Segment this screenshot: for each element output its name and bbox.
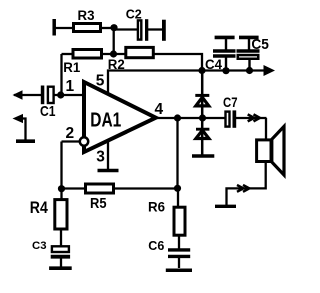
wire to speaker [265,118,267,139]
pin 4 wire [155,101,226,118]
svg-text:2: 2 [66,125,75,142]
node C5/supply junction [246,67,253,74]
resistor R4 [30,189,67,246]
ground input arrow [13,114,36,141]
svg-text:R4: R4 [30,198,48,217]
svg-text:C5: C5 [251,36,269,53]
svg-text:3: 3 [96,149,105,166]
node output junction diodes [199,114,206,121]
capacitor C4 [205,37,236,72]
capacitor C2 [114,7,162,41]
resistor R6 [148,188,185,249]
svg-text:C6: C6 [148,238,164,253]
feedback wire from pin4 node down [176,118,178,188]
speaker bottom wire [227,163,266,205]
svg-text:R6: R6 [148,199,165,215]
svg-text:C2: C2 [126,7,142,22]
terminal T-bar right of C2 [162,20,166,41]
wire R2 to supply node [153,54,202,71]
svg-text:C4: C4 [205,56,222,72]
svg-text:R1: R1 [63,59,80,75]
svg-text:C7: C7 [223,95,238,110]
wire junction column [113,28,115,54]
node junction R1/R2 [110,50,117,57]
resistor R2 [108,47,154,72]
node pin2/R4/R5 [58,185,65,192]
capacitor C5 [237,36,269,71]
pin 3 wire + ground [96,141,118,171]
svg-text:C3: C3 [32,240,47,252]
pin 2 vertical wire [60,142,62,189]
capacitor C6 [148,238,190,268]
resistor R1 [62,50,126,96]
svg-text:4: 4 [155,101,164,118]
svg-text:DA1: DA1 [90,109,121,131]
ground C3 [49,266,72,270]
input arrow [13,90,42,99]
terminal T-bar left of R3 [54,19,73,36]
diode VD2 [192,118,214,156]
speaker BA1 [257,126,284,175]
node pin1 junction [54,91,84,98]
supply line with arrow [202,65,275,76]
capacitor C3 [32,240,70,267]
svg-text:C1: C1 [40,103,56,120]
svg-text:1: 1 [66,78,75,95]
pin 2 wire [62,125,81,142]
inversion bubble pin 2 [80,137,88,145]
pin 5 wire [96,71,202,95]
supply node junction [198,67,205,74]
ground C6 [166,268,192,272]
capacitor C7 [223,95,267,128]
node feedback/R5/R6 [174,185,181,192]
node junction R3 right [110,24,117,31]
node C4/supply junction [222,67,229,74]
svg-text:R3: R3 [78,8,95,23]
connector chevrons output [248,114,260,121]
op-amp DA1 [84,82,156,152]
capacitor C1 [40,86,56,121]
ground speaker [215,205,236,208]
resistor R5 [62,184,178,212]
svg-text:5: 5 [96,73,105,90]
diode VD1 [195,71,209,119]
svg-text:R5: R5 [90,195,107,212]
resistor R3 [74,8,115,32]
node output junction feedback [174,114,181,121]
connector chevrons speaker return [237,185,249,192]
